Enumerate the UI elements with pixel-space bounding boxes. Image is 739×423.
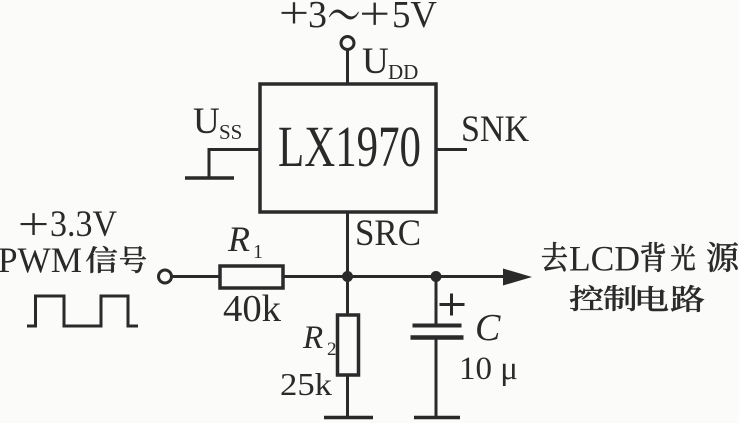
svg-text:25k: 25k (280, 366, 332, 402)
svg-text:SS: SS (219, 120, 242, 144)
svg-text:LX1970: LX1970 (278, 114, 421, 179)
svg-text:3: 3 (308, 0, 327, 36)
svg-text:U: U (362, 41, 389, 82)
svg-text:2: 2 (327, 339, 337, 360)
svg-text:DD: DD (388, 60, 418, 84)
svg-text:SNK: SNK (461, 109, 529, 150)
svg-text:PWM: PWM (0, 240, 82, 280)
svg-text:R: R (302, 320, 323, 356)
svg-text:1: 1 (253, 241, 263, 263)
svg-text:10 μ: 10 μ (459, 351, 518, 387)
svg-text:C: C (475, 307, 501, 349)
svg-text:R: R (227, 219, 250, 259)
svg-text:SRC: SRC (355, 213, 421, 254)
svg-text:U: U (193, 101, 220, 142)
svg-text:40k: 40k (223, 288, 281, 330)
svg-text:5V: 5V (392, 0, 438, 36)
svg-text:LCD: LCD (569, 239, 640, 279)
svg-text:3.3V: 3.3V (50, 204, 117, 245)
